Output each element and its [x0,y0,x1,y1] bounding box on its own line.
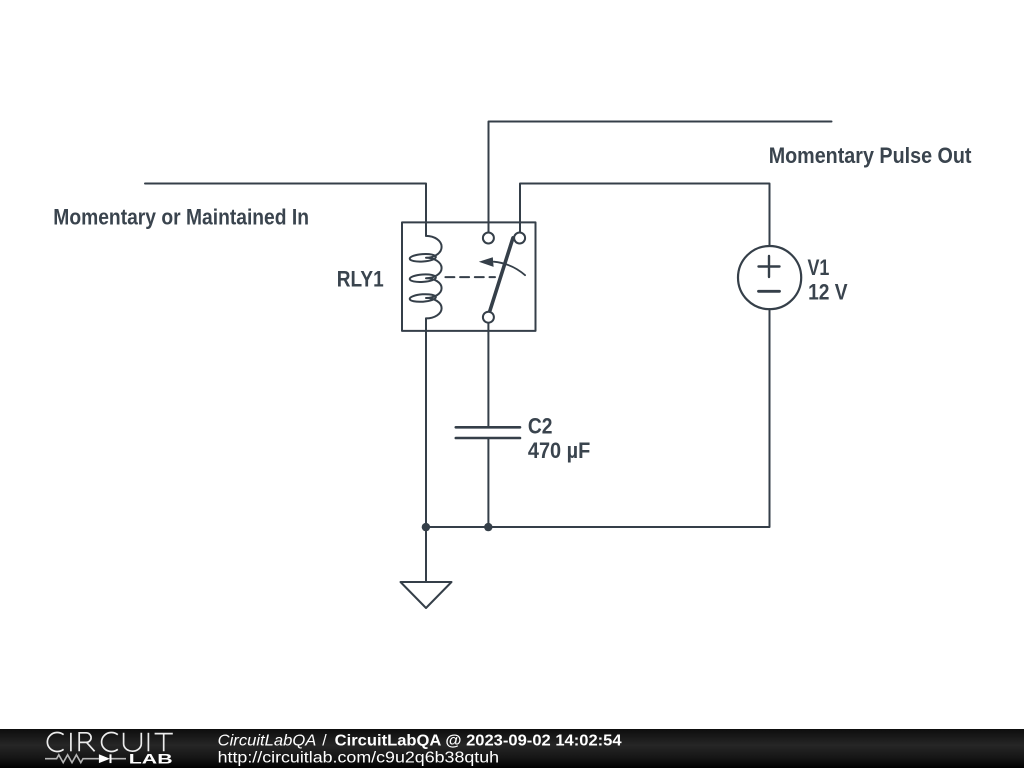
svg-text:CircuitLabQA @ 2023-09-02 14:0: CircuitLabQA @ 2023-09-02 14:02:54 [335,733,622,750]
svg-text:Momentary Pulse Out: Momentary Pulse Out [769,143,972,168]
svg-text:Momentary or Maintained In: Momentary or Maintained In [53,205,309,230]
svg-text:RLY1: RLY1 [337,267,384,292]
svg-text:C2: C2 [528,413,553,438]
svg-text:V1: V1 [808,255,830,280]
svg-text:12 V: 12 V [808,280,848,305]
svg-text:LAB: LAB [129,751,173,767]
svg-text:470 µF: 470 µF [528,438,590,463]
svg-text:http://circuitlab.com/c9u2q6b3: http://circuitlab.com/c9u2q6b38qtuh [218,750,500,767]
svg-text:CircuitLabQA: CircuitLabQA [218,733,317,750]
svg-text:/: / [322,733,327,750]
